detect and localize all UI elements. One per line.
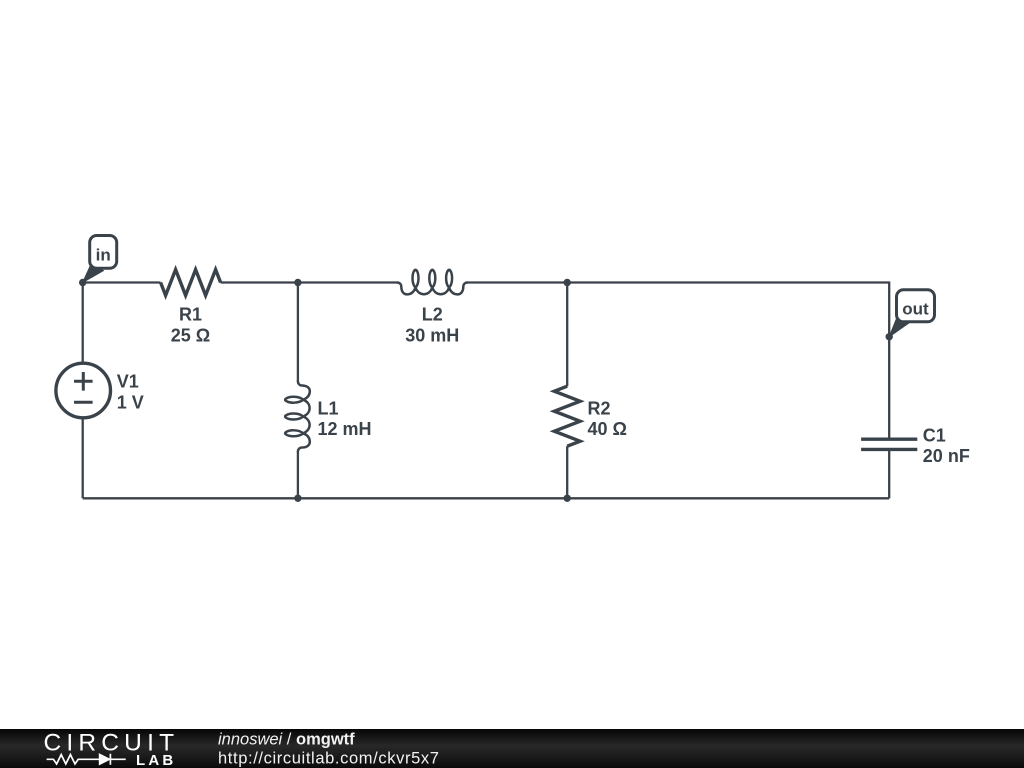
svg-text:LAB: LAB bbox=[136, 752, 176, 768]
node in junction bbox=[79, 279, 86, 286]
svg-text:L2: L2 bbox=[422, 305, 443, 325]
wire: C1 bottom to bottom-right corner bbox=[888, 449, 890, 498]
svg-text:R2: R2 bbox=[588, 398, 611, 418]
inductor L1 bbox=[285, 382, 310, 452]
svg-text:C1: C1 bbox=[923, 425, 946, 445]
wire: left branch V1 top bbox=[82, 283, 84, 364]
net flag pointer for node in bbox=[83, 264, 104, 282]
svg-text:V1: V1 bbox=[117, 372, 139, 392]
node B (L2/R2 junction) bbox=[564, 279, 571, 286]
inductor L2 bbox=[397, 270, 467, 295]
footer bar bbox=[0, 729, 1024, 768]
svg-text:out: out bbox=[902, 299, 929, 318]
net flag pointer for node out bbox=[889, 317, 910, 337]
svg-text:12 mH: 12 mH bbox=[318, 419, 372, 439]
CircuitLab logo resistor-diode symbol bbox=[47, 754, 126, 765]
wire: L1 branch bottom bbox=[297, 452, 299, 499]
svg-text:L1: L1 bbox=[318, 398, 339, 418]
node A (R1/L1/L2 junction) bbox=[294, 279, 301, 286]
wire: bottom rail bbox=[83, 497, 890, 499]
capacitor C1 bbox=[861, 439, 917, 449]
svg-text:25 Ω: 25 Ω bbox=[171, 326, 210, 346]
svg-text:30 mH: 30 mH bbox=[405, 326, 459, 346]
resistor R2 bbox=[554, 386, 580, 446]
node out junction bbox=[886, 333, 893, 340]
node bottom R2 junction bbox=[564, 495, 571, 502]
wire: L2 to top-right corner and down to C1 bbox=[467, 283, 889, 440]
voltage source V1 bbox=[56, 363, 111, 418]
net flag box "out" bbox=[897, 290, 935, 322]
wire: L1 branch top bbox=[297, 283, 299, 382]
wire: R2 branch bottom bbox=[566, 446, 568, 498]
svg-text:40 Ω: 40 Ω bbox=[588, 419, 627, 439]
svg-text:innoswei / omgwtf: innoswei / omgwtf bbox=[218, 731, 355, 749]
wire: left branch V1 bottom bbox=[82, 418, 84, 498]
svg-text:1 V: 1 V bbox=[117, 392, 144, 412]
svg-text:R1: R1 bbox=[179, 305, 202, 325]
net flag box "in" bbox=[90, 236, 117, 269]
svg-text:in: in bbox=[96, 245, 111, 264]
svg-text:20 nF: 20 nF bbox=[923, 446, 970, 466]
resistor R1 bbox=[161, 270, 221, 296]
svg-text:http://circuitlab.com/ckvr5x7: http://circuitlab.com/ckvr5x7 bbox=[218, 749, 440, 767]
wire: R2 branch top bbox=[566, 283, 568, 387]
wire: R1 to node A horizontal bbox=[221, 281, 398, 283]
wire: top-left horizontal (node in to R1) bbox=[83, 281, 161, 283]
node bottom L1 junction bbox=[294, 495, 301, 502]
